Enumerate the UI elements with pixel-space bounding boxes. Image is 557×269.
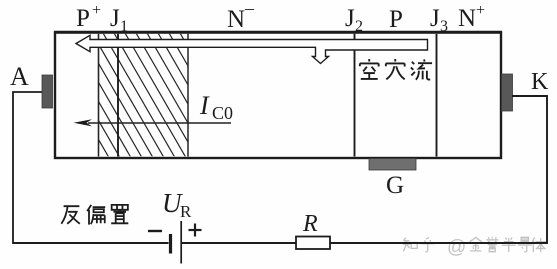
svg-text:J: J: [110, 5, 120, 32]
svg-text:–: –: [244, 0, 255, 18]
label J3: [430, 5, 448, 35]
svg-text:@: @: [447, 237, 466, 258]
svg-text:K: K: [531, 69, 549, 95]
wire resistor to right rail to K: [330, 96, 547, 243]
svg-text:+: +: [92, 2, 101, 19]
svg-text:3: 3: [440, 18, 448, 35]
junction J1 line: [117, 34, 119, 157]
bottom-left wire to battery: [12, 242, 168, 244]
label N+: [458, 2, 485, 32]
svg-text:1: 1: [120, 18, 128, 35]
svg-text:A: A: [10, 62, 29, 91]
svg-text:P: P: [389, 6, 403, 33]
label 反偏置 (reverse bias): [61, 205, 128, 225]
watermark 知乎 @金誉半导体: [403, 237, 546, 252]
svg-text:R: R: [302, 211, 318, 237]
label R: [302, 211, 318, 237]
svg-text:N: N: [458, 5, 476, 32]
svg-text:N: N: [227, 6, 245, 33]
label J1: [110, 5, 128, 35]
wire battery to resistor: [182, 242, 296, 244]
svg-text:G: G: [386, 172, 404, 199]
junction J3 line: [436, 34, 438, 157]
svg-text:C0: C0: [212, 103, 233, 123]
label U_R: [162, 188, 192, 221]
svg-text:2: 2: [355, 18, 363, 35]
plus sign: [189, 224, 202, 237]
svg-text:J: J: [345, 5, 355, 32]
label I_C0: [199, 91, 233, 123]
hole-current hollow arrow: [76, 35, 428, 63]
ICO leakage-current arrow: [74, 119, 232, 126]
svg-text:P: P: [76, 5, 90, 32]
cathode electrode K: [502, 74, 513, 111]
svg-text:I: I: [199, 91, 210, 120]
depletion region hatch at J1: [26, 33, 252, 157]
label G: [386, 172, 404, 199]
label 空穴流 (hole flow): [360, 59, 432, 80]
junction J2 line: [354, 34, 356, 157]
resistor R body: [296, 237, 330, 250]
battery UR negative plate: [169, 234, 172, 254]
label J2: [345, 5, 363, 35]
device body box: [54, 32, 502, 158]
label P (gate region): [389, 6, 403, 33]
svg-text:J: J: [430, 5, 440, 32]
label P+: [76, 2, 101, 32]
svg-text:+: +: [476, 2, 485, 19]
label A: [10, 62, 29, 91]
watermark @ sign: [447, 237, 466, 258]
svg-text:R: R: [180, 202, 192, 221]
battery UR positive plate: [180, 221, 182, 264]
gate electrode G: [369, 159, 416, 171]
label K: [531, 69, 549, 95]
label N-: [227, 0, 255, 33]
wire from A to left rail: [13, 92, 42, 243]
anode electrode A: [42, 75, 53, 108]
minus sign: [148, 230, 162, 232]
